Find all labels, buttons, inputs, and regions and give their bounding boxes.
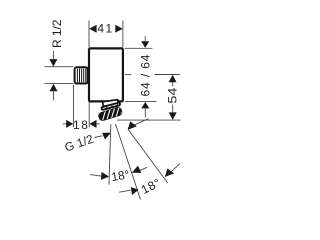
dim 41 right extension line [122, 20, 124, 47]
svg-text:R 1/2: R 1/2 [50, 19, 64, 48]
dim 18 right extension line [88, 102, 90, 127]
dim R1/2 bottom extension line [45, 83, 74, 85]
outlet pointer arrow (right of nozzle) [135, 119, 149, 125]
dim R1/2 top extension line [45, 66, 74, 68]
dim 64/64 top extension line [125, 47, 153, 49]
dim 54 top arrow [169, 75, 177, 83]
dim R1/2 lower arrow [50, 84, 58, 91]
dim R1/2 upper arrow [49, 59, 57, 66]
angle dim 1 text [110, 167, 130, 184]
G 1/2 leader arrow [102, 133, 111, 140]
svg-text:64 / 64: 64 / 64 [138, 54, 152, 96]
svg-text:18°: 18° [110, 167, 130, 184]
dim 54 top extension line (two segments) [125, 74, 132, 76]
dim 64/64 top arrow [141, 41, 149, 48]
thread R 1/2 stub [75, 67, 88, 83]
dim 54 dimension line [172, 82, 174, 87]
body outline [89, 48, 123, 101]
angle dim 2 text [139, 176, 163, 197]
dim 41 left arrow [89, 25, 96, 33]
nozzle neck [103, 100, 119, 107]
svg-text:G 1/2: G 1/2 [63, 132, 96, 155]
svg-text:41: 41 [97, 21, 113, 35]
dim 54 bottom arrow [169, 112, 177, 120]
nozzle ring [101, 102, 120, 110]
G 1/2 leader line [95, 136, 103, 138]
dim 54 bottom extension line [117, 119, 181, 121]
fan line V3 [128, 130, 167, 183]
svg-text:18°: 18° [139, 176, 163, 197]
svg-text:54: 54 [165, 87, 179, 103]
angle dim 1 left arrow [90, 175, 102, 177]
dim 41 left extension line [88, 20, 90, 47]
fan line V2 [116, 124, 141, 200]
dim 41 right arrow [115, 25, 122, 33]
nozzle collar striped [97, 104, 127, 122]
dim 64/64 bottom arrow [141, 102, 149, 109]
dim 18 right arrow [96, 123, 99, 125]
G 1/2 label [63, 132, 96, 155]
thread hatch [77, 69, 85, 83]
fan line V1 [109, 124, 111, 184]
angle dim 1 right arrow [139, 167, 147, 171]
angle dim 2 left arrow [119, 190, 131, 192]
svg-text:18: 18 [73, 118, 89, 132]
angle dim 2 right arrow [171, 163, 180, 171]
dim 18 left arrow [63, 123, 67, 125]
dim 64/64 bottom extension line [125, 100, 157, 102]
dim 18 left extension line [73, 85, 75, 127]
